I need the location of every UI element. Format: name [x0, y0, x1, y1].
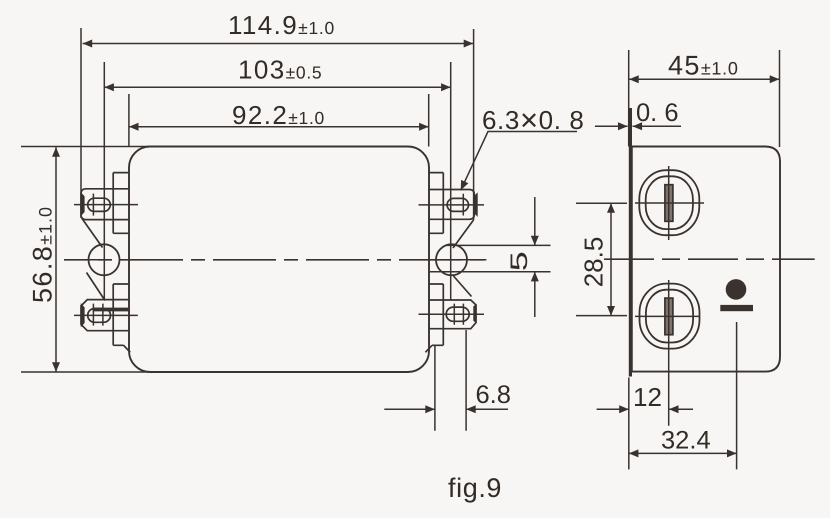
dimension 28.5 — [610, 203, 612, 315]
ground extension line — [736, 322, 738, 469]
ground bar — [720, 305, 753, 311]
svg-text:5: 5 — [505, 251, 533, 271]
svg-text:114.9±1.0: 114.9±1.0 — [228, 10, 335, 40]
dimension 6.8 arrows — [384, 408, 435, 410]
extension line right view right — [779, 50, 781, 147]
extension line right lug outer — [473, 29, 475, 220]
dimension 12 arrows — [597, 408, 629, 410]
centerline left view — [64, 259, 487, 261]
svg-text:92.2±1.0: 92.2±1.0 — [232, 100, 325, 130]
ground dot — [726, 279, 747, 300]
left bushing circle — [89, 244, 120, 275]
dimension 32.4 — [629, 452, 737, 454]
dimension 92.2 — [129, 126, 429, 128]
bracket diagonal straps — [82, 219, 474, 353]
extension line right screw axis — [450, 62, 452, 300]
dimension 56.8 — [55, 147, 57, 372]
dimension 28.5 extension lines — [576, 203, 627, 315]
dimension 56.8 extension lines — [21, 147, 155, 373]
centerline right view — [604, 258, 815, 260]
svg-text:fig.9: fig.9 — [448, 473, 502, 503]
left mounting flange plate — [113, 173, 129, 346]
right view panel thick edge — [629, 108, 632, 377]
right bushing circle — [436, 244, 467, 275]
leader line 6.3x0.8 — [461, 132, 577, 191]
dimension 45 — [629, 78, 779, 80]
upper-right screw lug — [419, 190, 485, 220]
svg-text:12: 12 — [633, 382, 662, 412]
extension line left screw axis — [103, 62, 105, 300]
right mounting flange plate — [429, 173, 443, 346]
lower-left screw lug — [74, 300, 138, 331]
lower terminal screw — [635, 280, 700, 426]
upper terminal screw — [635, 166, 704, 240]
right view mounting panel extension — [628, 50, 630, 147]
filter body outline (left view) — [129, 147, 429, 373]
svg-text:6.8: 6.8 — [476, 381, 511, 409]
dimension 0.6 arrows — [595, 125, 628, 127]
extension line body right — [428, 94, 430, 147]
svg-text:103±0.5: 103±0.5 — [238, 55, 322, 85]
dimension 103 — [104, 86, 450, 88]
extension line body left — [128, 94, 130, 147]
svg-text:45±1.0: 45±1.0 — [668, 51, 739, 81]
svg-text:6.3×0. 8: 6.3×0. 8 — [482, 103, 584, 138]
dimension 6.8 extension lines — [435, 330, 466, 431]
lower-right screw lug — [419, 300, 485, 329]
extension line left lug outer — [80, 28, 82, 218]
right view body outline — [632, 147, 780, 372]
svg-text:0. 6: 0. 6 — [636, 99, 679, 127]
dimension 114.9 — [83, 43, 474, 45]
svg-text:32.4: 32.4 — [661, 427, 711, 455]
dimension 5 arrows — [534, 197, 536, 245]
svg-text:56.8±1.0: 56.8±1.0 — [28, 206, 58, 303]
upper-left screw lug — [74, 189, 138, 220]
dimension 5 reference lines — [430, 245, 551, 271]
svg-text:28.5: 28.5 — [579, 237, 609, 288]
dimension 12 extension line — [628, 378, 630, 470]
